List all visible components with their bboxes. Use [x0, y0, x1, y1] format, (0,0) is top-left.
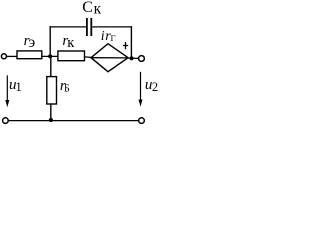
- svg-text:2: 2: [152, 80, 158, 94]
- svg-text:Г: Г: [111, 33, 116, 43]
- wire right vertical down to output node: [130, 26, 132, 58]
- wire source to output node: [128, 57, 138, 59]
- svg-text:э: э: [29, 34, 36, 51]
- wire r_к to source: [85, 56, 92, 59]
- svg-text:Б: Б: [64, 83, 70, 94]
- svg-text:i: i: [101, 29, 105, 44]
- label + polarity: [123, 42, 128, 49]
- common terminal (bottom-left): [3, 118, 9, 124]
- bottom junction dot: [49, 118, 53, 122]
- bottom rail wire: [8, 120, 138, 122]
- wire node B up to top rail: [49, 26, 51, 56]
- output terminal (top-right): [139, 56, 145, 62]
- resistor R r_к: [58, 51, 85, 61]
- wire r_э to node B: [42, 55, 58, 57]
- resistor R r_б: [47, 77, 57, 104]
- wire top rail left of C_к: [50, 26, 87, 28]
- wire r_б down to bottom rail: [50, 104, 52, 121]
- wire top rail right of C_к: [92, 26, 132, 28]
- output node junction dot: [130, 56, 134, 60]
- arrow u1: [5, 75, 9, 107]
- svg-text:1: 1: [16, 80, 22, 94]
- common terminal (bottom-right): [139, 118, 145, 124]
- wire node B down to r_б: [50, 56, 52, 76]
- svg-text:к: к: [94, 1, 102, 18]
- node B junction dot: [48, 54, 52, 58]
- arrow u2: [139, 72, 143, 107]
- svg-text:C: C: [82, 0, 93, 16]
- wire terminal to r_e: [7, 55, 18, 57]
- dependent source U1 diamond i·r_Г: [91, 44, 128, 72]
- input terminal (top-left): [1, 54, 6, 59]
- resistor R r_э: [17, 51, 42, 59]
- capacitor C_к: [87, 18, 91, 36]
- svg-text:к: к: [67, 35, 75, 51]
